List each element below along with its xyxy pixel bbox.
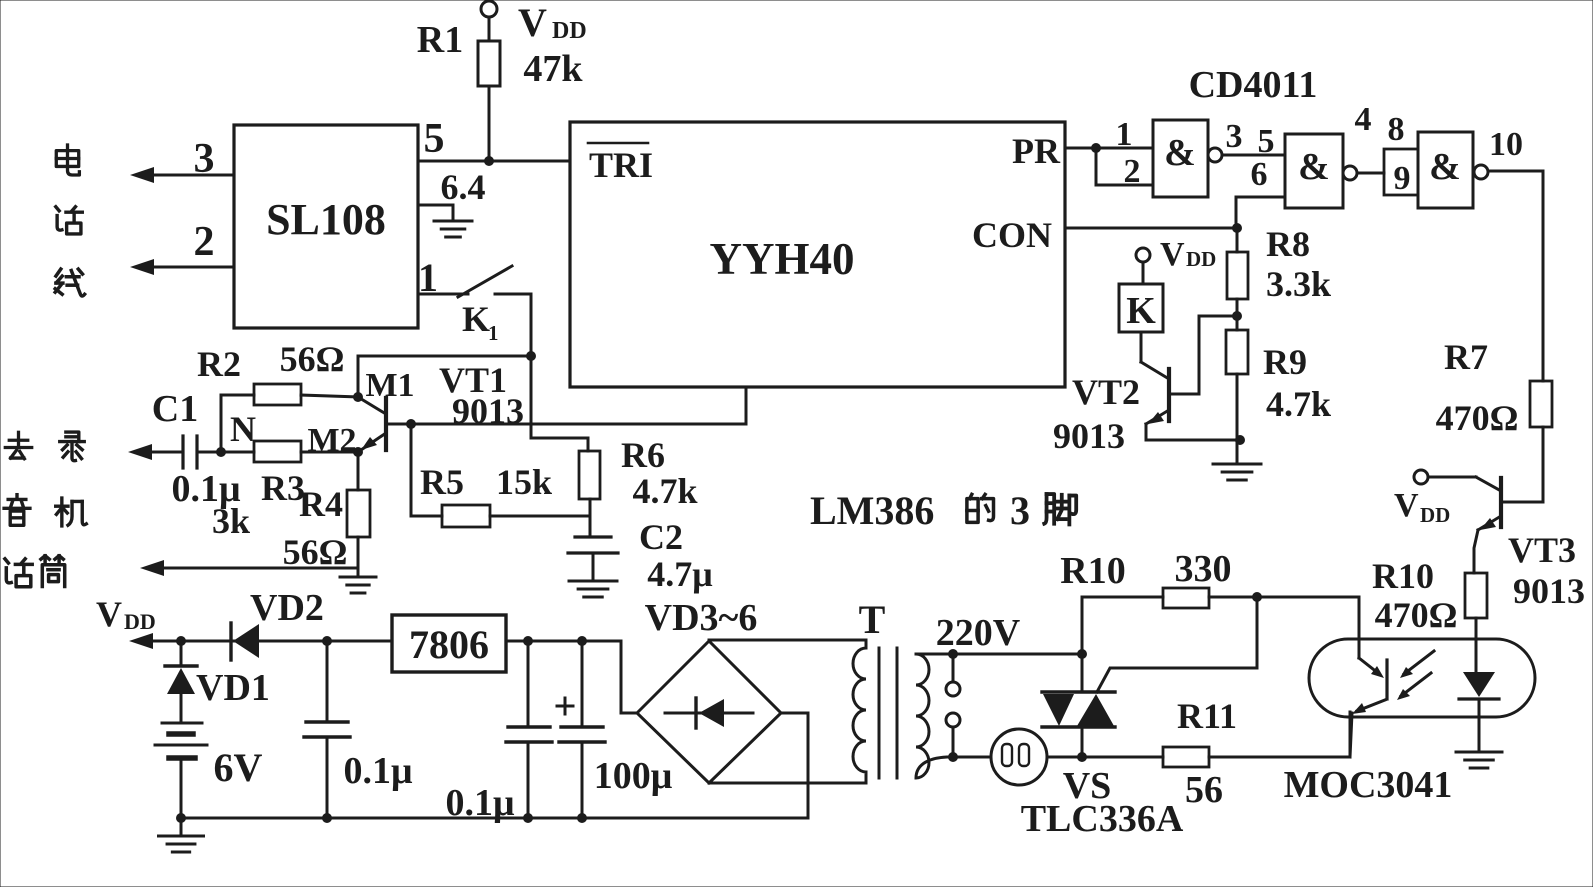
svg-text:TRI: TRI [589, 145, 653, 185]
svg-text:C1: C1 [152, 388, 198, 430]
svg-text:M1: M1 [365, 367, 414, 404]
svg-text:10: 10 [1489, 126, 1523, 163]
svg-text:1: 1 [1116, 116, 1133, 153]
svg-text:DD: DD [124, 609, 156, 634]
svg-text:PR: PR [1012, 131, 1061, 171]
svg-text:V: V [96, 594, 122, 634]
svg-text:SL108: SL108 [266, 195, 386, 244]
svg-text:47k: 47k [523, 48, 583, 90]
svg-text:4.7μ: 4.7μ [647, 554, 712, 594]
svg-text:DD: DD [552, 18, 587, 44]
svg-text:C2: C2 [639, 517, 683, 557]
svg-text:&: & [1298, 146, 1330, 188]
svg-text:YYH40: YYH40 [710, 234, 855, 284]
svg-text:470Ω: 470Ω [1436, 398, 1519, 438]
svg-text:N: N [230, 409, 256, 449]
svg-text:DD: DD [1186, 247, 1216, 271]
svg-text:R5: R5 [420, 462, 464, 502]
svg-text:6.4: 6.4 [441, 167, 486, 207]
svg-text:M2: M2 [307, 422, 356, 459]
svg-text:3k: 3k [212, 501, 250, 541]
svg-text:1: 1 [418, 255, 438, 300]
svg-text:R7: R7 [1444, 337, 1488, 377]
svg-text:5: 5 [1258, 123, 1275, 160]
svg-text:9013: 9013 [452, 391, 524, 431]
svg-text:LM386: LM386 [810, 488, 934, 533]
svg-text:VD2: VD2 [250, 587, 324, 629]
svg-text:3.3k: 3.3k [1266, 264, 1331, 304]
svg-text:56: 56 [1185, 769, 1223, 811]
svg-text:V: V [1160, 236, 1185, 273]
svg-text:15k: 15k [496, 462, 552, 502]
svg-text:330: 330 [1175, 548, 1232, 590]
svg-text:DD: DD [1420, 503, 1450, 527]
svg-text:6: 6 [1251, 156, 1268, 193]
svg-text:R11: R11 [1177, 696, 1237, 736]
svg-text:56Ω: 56Ω [280, 339, 345, 379]
svg-text:4.7k: 4.7k [632, 471, 697, 511]
svg-text:4: 4 [1355, 101, 1372, 138]
svg-text:100μ: 100μ [594, 755, 673, 797]
svg-text:R4: R4 [299, 484, 343, 524]
svg-text:4.7k: 4.7k [1266, 384, 1331, 424]
svg-text:R6: R6 [621, 435, 665, 475]
svg-text:9: 9 [1394, 160, 1411, 197]
svg-text:1: 1 [488, 321, 499, 345]
svg-text:CD4011: CD4011 [1189, 64, 1318, 106]
svg-text:3: 3 [1010, 488, 1030, 533]
svg-text:VD1: VD1 [196, 667, 270, 709]
svg-text:CON: CON [972, 215, 1052, 255]
svg-text:TLC336A: TLC336A [1021, 798, 1184, 840]
svg-text:0.1μ: 0.1μ [343, 750, 413, 792]
svg-text:0.1μ: 0.1μ [445, 782, 515, 824]
svg-text:9013: 9013 [1513, 571, 1585, 611]
svg-text:R10: R10 [1060, 550, 1125, 592]
svg-text:VT2: VT2 [1072, 372, 1140, 412]
svg-text:2: 2 [194, 219, 215, 265]
svg-text:3: 3 [194, 136, 215, 182]
svg-text:K: K [1126, 290, 1156, 332]
svg-text:R2: R2 [197, 344, 241, 384]
svg-text:R1: R1 [417, 19, 463, 61]
svg-text:3: 3 [1226, 118, 1243, 155]
svg-text:VD3~6: VD3~6 [645, 597, 758, 639]
svg-text:R8: R8 [1266, 224, 1310, 264]
svg-text:VT3: VT3 [1508, 530, 1576, 570]
svg-text:V: V [1394, 487, 1419, 524]
svg-text:5: 5 [424, 116, 445, 162]
svg-text:56Ω: 56Ω [283, 532, 348, 572]
svg-text:8: 8 [1388, 111, 1405, 148]
svg-text:MOC3041: MOC3041 [1284, 764, 1453, 806]
svg-text:&: & [1164, 132, 1196, 174]
svg-text:K: K [462, 299, 490, 339]
svg-text:9013: 9013 [1053, 416, 1125, 456]
svg-text:V: V [518, 0, 547, 45]
svg-text:R9: R9 [1263, 342, 1307, 382]
svg-text:470Ω: 470Ω [1375, 595, 1458, 635]
svg-text:220V: 220V [936, 612, 1021, 654]
svg-text:7806: 7806 [409, 622, 489, 667]
svg-text:T: T [859, 597, 886, 642]
svg-text:&: & [1429, 146, 1461, 188]
svg-text:6V: 6V [214, 745, 263, 790]
svg-text:R10: R10 [1372, 556, 1434, 596]
svg-text:2: 2 [1124, 153, 1141, 190]
